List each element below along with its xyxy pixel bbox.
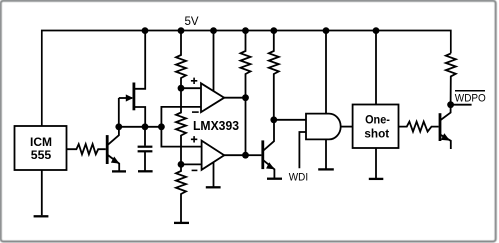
capacitor C1 bbox=[138, 127, 153, 171]
node rail-divider bbox=[178, 27, 185, 34]
5V power rail bbox=[42, 31, 451, 127]
svg-text:WDI: WDI bbox=[289, 172, 308, 184]
resistor R6 (WDPO pull-up) bbox=[446, 53, 456, 104]
ground under divider bbox=[174, 222, 189, 224]
node bus-Q1 bbox=[115, 123, 122, 130]
resistor R3 (pull-up) bbox=[241, 31, 251, 98]
node rail-comparator-vcc bbox=[210, 27, 217, 34]
ground under one-shot bbox=[369, 178, 384, 180]
ground under Q1 bbox=[112, 170, 126, 172]
svg-text:LMX393: LMX393 bbox=[193, 119, 239, 133]
wire bus tap to upper comparator -in bbox=[161, 107, 201, 127]
transistor Q3 (NPN output) bbox=[440, 105, 451, 149]
svg-text:5V: 5V bbox=[185, 16, 199, 28]
wire node to AND gate bbox=[274, 119, 306, 121]
node comp output upper bbox=[242, 94, 249, 101]
transistor Q4 (N-JFET) bbox=[119, 31, 145, 127]
svg-text:shot: shot bbox=[364, 127, 389, 141]
transistor Q2 (NPN) bbox=[263, 120, 275, 178]
node AND input bbox=[270, 116, 277, 123]
transistor Q1 (NPN) bbox=[107, 127, 119, 171]
op-amp U1a (upper comparator) bbox=[191, 31, 224, 113]
resistor R2c (divider bottom) bbox=[176, 164, 186, 222]
wire wired-OR vertical bbox=[245, 98, 247, 156]
op-amp U1b (lower comparator) bbox=[191, 136, 224, 186]
node bus-comp bbox=[158, 123, 165, 130]
ground under AND gate bbox=[318, 168, 334, 170]
ground under ICM555 bbox=[34, 215, 49, 217]
wire node to Q2 base bbox=[246, 154, 262, 156]
wire one-shot vcc bbox=[375, 31, 377, 105]
ground under Q2 bbox=[267, 178, 282, 180]
resistor R2b (divider middle) bbox=[176, 88, 186, 164]
svg-text:One-: One- bbox=[365, 113, 390, 127]
wire WDPO stub bbox=[451, 104, 472, 106]
wire bus (timing node) bbox=[119, 126, 162, 128]
node rail-andgate bbox=[323, 27, 330, 34]
node rail-oneshot bbox=[373, 27, 380, 34]
AND gate U3 bbox=[299, 31, 340, 170]
wire one-shot gnd bbox=[375, 148, 377, 178]
node WDPO bbox=[447, 101, 454, 108]
svg-text:ICM: ICM bbox=[30, 135, 52, 149]
svg-text:WDPO: WDPO bbox=[455, 93, 486, 105]
node rail-drain bbox=[142, 27, 149, 34]
wire node to -in lower bbox=[181, 163, 202, 165]
node bus-C1 bbox=[142, 123, 149, 130]
node rail-R4 bbox=[270, 27, 277, 34]
wire upper comparator output bbox=[224, 97, 246, 99]
label WDPO (with overline) bbox=[455, 91, 486, 105]
resistor R2a (divider top) bbox=[176, 31, 186, 89]
resistor R1 (555 output to Q1 base) bbox=[66, 144, 106, 154]
node divider upper bbox=[178, 85, 185, 92]
node rail-R3 bbox=[242, 27, 249, 34]
resistor R4 (AND input pull-up) bbox=[269, 31, 279, 120]
wire node to +in upper bbox=[181, 87, 201, 89]
One-shot box U4 bbox=[353, 105, 399, 149]
ground under C1 bbox=[138, 170, 153, 172]
wire bus tap to lower comparator +in bbox=[161, 127, 201, 147]
ICM 555 box U2 bbox=[15, 126, 67, 170]
wire lower comparator output bbox=[224, 154, 246, 156]
resistor R5 (Q3 base) bbox=[399, 122, 439, 132]
svg-text:555: 555 bbox=[31, 148, 52, 162]
wire AND out to one-shot bbox=[341, 126, 353, 128]
node comp output lower bbox=[242, 152, 249, 159]
node divider lower bbox=[178, 161, 185, 168]
wire ICM555 bottom to ground bbox=[41, 170, 43, 215]
ground under U1b bbox=[206, 186, 221, 188]
